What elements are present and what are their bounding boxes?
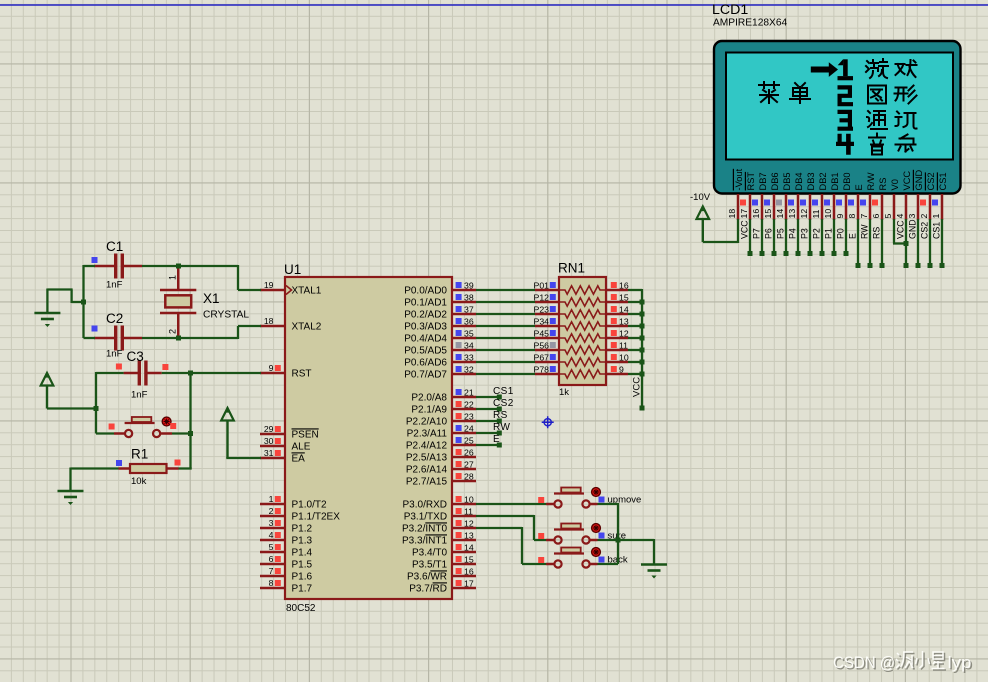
U1 pin 21 state indicator	[456, 389, 462, 395]
svg-text:CRYSTAL: CRYSTAL	[203, 310, 249, 321]
svg-text:P2.2/A10: P2.2/A10	[406, 416, 448, 427]
svg-text:P2.0/A8: P2.0/A8	[411, 392, 447, 403]
svg-text:31: 31	[264, 448, 274, 458]
svg-text:39: 39	[464, 281, 474, 291]
svg-text:10: 10	[823, 209, 833, 219]
push button RESET terminals	[125, 430, 160, 437]
svg-text:80C52: 80C52	[286, 603, 316, 614]
RN1 left pin P56 stub	[535, 349, 559, 352]
junction RN1 bus row 10	[640, 360, 645, 365]
svg-text:12: 12	[619, 329, 629, 339]
svg-text:C3: C3	[127, 349, 144, 364]
U1 pin 7 P1.6 stub	[260, 575, 285, 578]
svg-text:P3.6/WR: P3.6/WR	[407, 571, 447, 582]
RN1 right pin 15 stub	[606, 301, 628, 304]
ground symbol (buttons)	[641, 565, 667, 571]
svg-text:U1: U1	[284, 262, 301, 277]
svg-text:5: 5	[883, 214, 893, 219]
U1 pin 6 P1.5 stub	[260, 563, 285, 566]
reset button left indicator	[109, 424, 115, 430]
svg-text:13: 13	[787, 209, 797, 219]
reset button right stub	[160, 432, 172, 435]
wire from LCD pin 12 down to net terminal	[809, 219, 811, 254]
respack RN1 body	[559, 277, 606, 385]
wire RN1 pin 12 to bus	[628, 337, 642, 339]
C3 right state indicator	[162, 364, 168, 370]
svg-text:12: 12	[464, 519, 474, 529]
push button sure actuator bar	[554, 528, 584, 530]
svg-text:AMPIRE128X64: AMPIRE128X64	[713, 18, 788, 29]
LCD1 pin 11 stub	[821, 194, 824, 220]
svg-text:17: 17	[464, 579, 474, 589]
U1 pin 9 RST stub	[260, 372, 285, 375]
svg-text:14: 14	[464, 543, 474, 553]
svg-text:ALE: ALE	[292, 441, 311, 452]
svg-text:CS2: CS2	[926, 172, 936, 190]
U1 pin 11 state indicator	[456, 508, 462, 514]
C2 right pin stub	[123, 337, 143, 340]
svg-text:2: 2	[919, 214, 929, 219]
wire from LCD pin 17 down to net terminal	[749, 219, 751, 254]
svg-text:LCD1: LCD1	[712, 2, 748, 18]
svg-text:RW: RW	[860, 224, 870, 239]
LCD1 pin 9 state indicator	[836, 200, 842, 206]
svg-text:9: 9	[619, 365, 624, 375]
svg-text:DB6: DB6	[770, 172, 780, 190]
svg-text:16: 16	[751, 209, 761, 219]
C3 right pin stub	[146, 372, 162, 375]
LCD1 pin 17 stub	[749, 194, 752, 220]
U1 pin 37 state indicator	[456, 306, 462, 312]
U1 pin 22 stub	[452, 408, 476, 411]
svg-text:PSEN: PSEN	[292, 429, 319, 440]
svg-text:P56: P56	[534, 341, 550, 351]
junction reset button bus	[188, 431, 193, 436]
button upmove right indicator	[599, 497, 605, 503]
U1 pin 26 stub	[452, 456, 476, 459]
svg-text:P3.5/T1: P3.5/T1	[412, 559, 447, 570]
svg-text:RST: RST	[292, 368, 312, 379]
RN1 left pin P23 stub	[535, 313, 559, 316]
svg-text:CS1: CS1	[932, 222, 942, 239]
push button upmove red indicator	[592, 488, 601, 497]
U1 pin 37 stub	[452, 313, 476, 316]
LCD screen menu item 1 游戏	[866, 59, 888, 78]
RN1 resistor element 1 zigzag	[559, 286, 606, 294]
C2 left pin stub	[94, 337, 116, 340]
svg-text:P4: P4	[788, 228, 798, 239]
U1 pin 3 state indicator	[275, 520, 281, 526]
svg-text:P01: P01	[534, 281, 550, 291]
svg-text:P23: P23	[534, 305, 550, 315]
svg-text:P2.3/A11: P2.3/A11	[407, 428, 448, 439]
svg-text:CS2: CS2	[920, 222, 930, 239]
button sure left stub	[546, 539, 555, 542]
svg-text:32: 32	[464, 365, 474, 375]
svg-text:P1.5: P1.5	[292, 559, 313, 570]
svg-text:34: 34	[464, 341, 474, 351]
svg-text:35: 35	[464, 329, 474, 339]
RN1 right pin 9 indicator	[611, 366, 617, 372]
svg-text:17: 17	[739, 209, 749, 219]
wire C1/C2 node to ground	[72, 301, 85, 303]
C2 state indicator	[92, 326, 98, 332]
U1 pin 39 stub	[452, 289, 476, 292]
U1 pin 33 stub	[452, 361, 476, 364]
svg-text:7: 7	[859, 214, 869, 219]
svg-text:DB0: DB0	[842, 172, 852, 190]
LCD1 pin 1 stub	[941, 194, 944, 220]
wire U1 P3.0 to upmove button	[476, 503, 546, 505]
svg-text:P0.4/AD4: P0.4/AD4	[404, 333, 447, 344]
junction RN1 bus row 13	[640, 324, 645, 329]
crystal X1 top plate	[160, 289, 196, 292]
wire RN1 pin 13 to bus	[628, 325, 642, 327]
svg-text:1k: 1k	[559, 387, 569, 398]
RN1 right pin 10 indicator	[611, 354, 617, 360]
wire U1 P0.2 to RN1 P23	[476, 313, 535, 315]
U1 pin 31 EA stub	[260, 457, 285, 460]
U1 pin 4 P1.3 stub	[260, 539, 285, 542]
svg-text:P3.3/INT1: P3.3/INT1	[402, 535, 447, 546]
wire R1 left to ground	[71, 467, 119, 469]
svg-text:37: 37	[464, 305, 474, 315]
wire from LCD pin 1 down to net terminal	[941, 219, 943, 266]
wire LCD pin 5 V0 to pin 4 VCC	[893, 219, 895, 244]
push button back actuator bar	[554, 552, 584, 554]
LCD1 pin 12 stub	[809, 194, 812, 220]
wire from LCD pin 10 down to net terminal	[833, 219, 835, 254]
svg-text:11: 11	[464, 507, 473, 517]
LCD1 pin 7 state indicator	[860, 200, 866, 206]
U1 pin 25 stub	[452, 444, 476, 447]
push button sure red indicator	[592, 524, 601, 533]
LCD1 pin 2 stub	[929, 194, 932, 220]
LCD1 pin 13 state indicator	[788, 200, 794, 206]
U1 pin 6 state indicator	[275, 556, 281, 562]
U1 pin 15 state indicator	[456, 556, 462, 562]
wire RST row down-left loop	[95, 372, 97, 434]
wire from LCD pin 8 down to net terminal	[857, 219, 859, 266]
wire U1 P3.1 to sure button	[476, 515, 534, 517]
svg-text:V0: V0	[890, 179, 900, 190]
svg-text:30: 30	[264, 436, 274, 446]
reset button right indicator	[170, 423, 176, 429]
svg-text:P1.4: P1.4	[292, 547, 313, 558]
svg-text:4: 4	[269, 530, 274, 540]
svg-text:2: 2	[168, 329, 178, 334]
LCD1 pin 17 state indicator	[740, 200, 746, 206]
U1 pin 29 PSEN stub	[260, 433, 285, 436]
svg-text:14: 14	[619, 305, 629, 315]
svg-text:1nF: 1nF	[106, 280, 123, 291]
svg-text:9: 9	[269, 363, 274, 373]
svg-text:RS: RS	[878, 178, 888, 191]
wire LCD pin 4 VCC down	[905, 219, 907, 266]
U1 pin 10 stub	[452, 503, 476, 506]
C1 right pin stub	[123, 265, 143, 268]
U1 pin 27 state indicator	[456, 461, 462, 467]
crystal X1 body	[165, 295, 191, 307]
svg-text:DB4: DB4	[794, 172, 804, 190]
RN1 right pin 16 indicator	[611, 282, 617, 288]
U1 pin 21 stub	[452, 396, 476, 399]
wire C2 right to X1 pin2 node	[142, 337, 179, 339]
U1 pin 5 P1.4 stub	[260, 551, 285, 554]
LCD1 pin 10 stub	[833, 194, 836, 220]
U1 pin 32 stub	[452, 373, 476, 376]
U1 pin 14 stub	[452, 551, 476, 554]
svg-text:X1: X1	[203, 291, 220, 306]
U1 pin 17 state indicator	[456, 580, 462, 586]
LCD screen digit 1	[843, 59, 848, 76]
svg-text:15: 15	[619, 293, 629, 303]
wire from LCD pin 6 down to net terminal	[881, 219, 883, 266]
push button RESET red indicator	[162, 417, 171, 426]
svg-text:16: 16	[464, 567, 474, 577]
button back left indicator	[538, 557, 544, 563]
button upmove right stub	[590, 503, 598, 506]
svg-text:18: 18	[264, 316, 274, 326]
svg-text:C2: C2	[106, 311, 123, 326]
svg-text:6: 6	[871, 214, 881, 219]
junction RN1 bus row 12	[640, 336, 645, 341]
svg-text:lyp: lyp	[948, 654, 972, 672]
svg-text:RST: RST	[746, 172, 756, 191]
U1 pin 17 stub	[452, 587, 476, 590]
wire RN1 pin 10 to bus	[628, 361, 642, 363]
wire RN1 pin 11 to bus	[628, 349, 642, 351]
wire U1 P0.6 to RN1 P67	[476, 361, 535, 363]
watermark CSDN	[833, 651, 973, 674]
RN1 left pin P78 indicator	[550, 366, 556, 372]
LCD1 pin 6 stub	[881, 194, 884, 220]
svg-text:2: 2	[269, 506, 274, 516]
button sure right stub	[590, 539, 598, 542]
crystal X1 bottom plate	[160, 312, 196, 315]
svg-text:23: 23	[464, 412, 474, 422]
wire U1 P0.3 to RN1 P34	[476, 325, 535, 327]
svg-text:E: E	[848, 233, 858, 239]
R1 left indicator	[116, 460, 122, 466]
svg-text:P0: P0	[836, 228, 846, 239]
svg-text:6: 6	[269, 554, 274, 564]
wire U1 P0.4 to RN1 P45	[476, 337, 535, 339]
svg-text:R1: R1	[131, 447, 148, 462]
LCD1 pin 1 state indicator	[932, 200, 938, 206]
U1 XTAL1 clock input mark	[286, 286, 292, 295]
wire U1 P2.4 to net E	[476, 444, 499, 446]
svg-text:36: 36	[464, 317, 474, 327]
ground symbol (crystal caps)	[34, 313, 60, 319]
RN1 right pin 10 stub	[606, 361, 628, 364]
RN1 right pin 14 indicator	[611, 306, 617, 312]
wire from LCD pin 14 down to net terminal	[785, 219, 787, 254]
wire -10V to LCD pin 18 (-Vout)	[703, 241, 738, 243]
svg-text:7: 7	[269, 566, 274, 576]
wire vertical bus RST to R1	[189, 373, 191, 469]
svg-text:E: E	[493, 434, 500, 445]
wire X1 pin2 node to U1 XTAL2	[178, 337, 239, 339]
LCD1 pin 15 stub	[773, 194, 776, 220]
junction reset-power node	[94, 406, 99, 411]
U1 pin 23 stub	[452, 420, 476, 423]
RN1 left pin P01 indicator	[550, 282, 556, 288]
capacitor C3 plates	[139, 361, 146, 386]
svg-text:14: 14	[775, 209, 785, 219]
LCD screen digit 2	[838, 85, 854, 106]
svg-text:29: 29	[264, 424, 274, 434]
LCD screen digit 3	[838, 110, 854, 131]
svg-text:RS: RS	[493, 410, 508, 421]
svg-text:RW: RW	[493, 422, 510, 433]
svg-text:11: 11	[619, 341, 628, 351]
svg-text:VCC: VCC	[740, 220, 750, 239]
U1 pin 12 state indicator	[456, 520, 462, 526]
RN1 left pin P67 indicator	[550, 354, 556, 360]
RN1 left pin P01 stub	[535, 289, 559, 292]
LCD screen digit 4	[836, 134, 854, 155]
U1 pin 3 P1.2 stub	[260, 527, 285, 530]
svg-text:P78: P78	[534, 365, 550, 375]
LCD1 pin 11 state indicator	[812, 200, 818, 206]
wire U1 P2.3 to net RW	[476, 432, 499, 434]
junction RST node	[188, 371, 193, 376]
svg-text:8: 8	[269, 578, 274, 588]
LCD1 pin 16 state indicator	[752, 200, 758, 206]
RN1 right pin 14 stub	[606, 313, 628, 316]
wire from LCD pin 15 down to net terminal	[773, 219, 775, 254]
svg-text:15: 15	[464, 555, 474, 565]
junction RN1 bus row 15	[640, 300, 645, 305]
RN1 resistor element 3 zigzag	[559, 310, 606, 318]
LCD1 pin 8 state indicator	[848, 200, 854, 206]
wire U1 P0.0 to RN1 P01	[476, 289, 535, 291]
svg-text:P2.1/A9: P2.1/A9	[411, 404, 447, 415]
U1 pin 12 stub	[452, 527, 476, 530]
C1 left pin stub	[94, 265, 116, 268]
RN1 resistor element 4 zigzag	[559, 322, 606, 330]
junction button ground bus	[616, 538, 621, 543]
crystal X1 pin 2 stub	[177, 313, 180, 338]
wire sure to ground bus	[598, 539, 619, 541]
RN1 resistor element 7 zigzag	[559, 358, 606, 366]
push button sure terminals	[554, 536, 589, 543]
origin marker crosshair	[542, 416, 554, 428]
wire from LCD pin 2 down to net terminal	[929, 219, 931, 266]
push button RESET actuator bar	[125, 422, 155, 424]
capacitor C2 plates	[116, 326, 123, 351]
svg-text:P2.5/A13: P2.5/A13	[406, 452, 448, 463]
LCD1 pin 16 stub	[761, 194, 764, 220]
svg-text:1: 1	[931, 214, 941, 219]
LCD1 pin 15 state indicator	[764, 200, 770, 206]
LCD1 pin 14 state indicator	[776, 200, 782, 206]
svg-text:26: 26	[464, 448, 474, 458]
svg-text:P0.1/AD1: P0.1/AD1	[404, 297, 447, 308]
LCD module LCD1 body	[714, 41, 961, 194]
svg-text:38: 38	[464, 293, 474, 303]
LCD1 pin 4 stub	[905, 194, 908, 220]
svg-text:16: 16	[619, 281, 629, 291]
svg-text:27: 27	[464, 460, 474, 470]
U1 pin 10 state indicator	[456, 496, 462, 502]
button back left stub	[546, 563, 555, 566]
svg-text:P0.0/AD0: P0.0/AD0	[404, 285, 447, 296]
R1 right indicator	[175, 460, 181, 466]
svg-text:24: 24	[464, 424, 474, 434]
svg-text:19: 19	[264, 280, 274, 290]
wire U1 P2.2 to net RS	[476, 420, 499, 422]
wire U1 P2.1 to net CS2	[476, 408, 499, 410]
svg-text:33: 33	[464, 353, 474, 363]
svg-text:10k: 10k	[131, 476, 147, 487]
RN1 left pin P12 indicator	[550, 294, 556, 300]
U1 pin 36 state indicator	[456, 318, 462, 324]
-10V power arrow terminal	[697, 207, 710, 220]
U1 pin 18 XTAL2 stub	[260, 325, 285, 328]
wire C1 right to X1 pin1 node	[142, 265, 179, 267]
svg-text:CSDN @: CSDN @	[833, 654, 895, 672]
U1 pin 32 state indicator	[456, 366, 462, 372]
RN1 right pin 9 stub	[606, 373, 628, 376]
RN1 left pin P34 indicator	[550, 318, 556, 324]
svg-text:DB3: DB3	[806, 172, 816, 190]
svg-text:P12: P12	[534, 293, 550, 303]
U1 pin 8 P1.7 stub	[260, 587, 285, 590]
RN1 left pin P45 indicator	[550, 330, 556, 336]
wire from LCD pin 3 down to net terminal	[917, 219, 919, 266]
U1 pin 28 stub	[452, 480, 476, 483]
wire from LCD pin 9 down to net terminal	[845, 219, 847, 254]
U1 pin 30 state indicator	[275, 438, 281, 444]
svg-text:P2: P2	[812, 228, 822, 239]
RN1 resistor element 2 zigzag	[559, 298, 606, 306]
RN1 resistor element 6 zigzag	[559, 346, 606, 354]
svg-text:GND: GND	[908, 219, 918, 239]
svg-text:VCC: VCC	[896, 220, 906, 239]
svg-text:-Vout: -Vout	[734, 168, 744, 190]
VCC net terminal below RN1	[640, 406, 645, 411]
wire from LCD pin 7 down to net terminal	[869, 219, 871, 266]
svg-text:P3.0/RXD: P3.0/RXD	[403, 499, 447, 510]
svg-text:DB1: DB1	[830, 172, 840, 190]
junction X1 pin1 node	[176, 264, 181, 269]
wire RN1 pin 15 to bus	[628, 301, 642, 303]
LCD1 pin 12 state indicator	[800, 200, 806, 206]
svg-text:28: 28	[464, 472, 474, 482]
U1 pin 24 state indicator	[456, 425, 462, 431]
IC U1 80C52 body	[285, 277, 452, 599]
U1 pin 4 state indicator	[275, 532, 281, 538]
push button back red indicator	[592, 548, 601, 557]
U1 pin 27 stub	[452, 468, 476, 471]
RN1 right pin 11 indicator	[611, 342, 617, 348]
svg-text:P0.2/AD2: P0.2/AD2	[404, 309, 447, 320]
svg-text:E: E	[854, 184, 864, 190]
LCD screen menu item 3 通讯	[867, 111, 887, 129]
U1 pin 16 state indicator	[456, 568, 462, 574]
svg-text:8: 8	[847, 214, 857, 219]
svg-text:P0.5/AD5: P0.5/AD5	[404, 345, 447, 356]
U1 pin 31 state indicator	[275, 450, 281, 456]
svg-text:25: 25	[464, 436, 474, 446]
LCD1 pin 10 state indicator	[824, 200, 830, 206]
wire RST node to U1 RST pin	[191, 372, 262, 374]
U1 pin 29 state indicator	[275, 426, 281, 432]
U1 pin 35 state indicator	[456, 330, 462, 336]
U1 pin 1 state indicator	[275, 496, 281, 502]
